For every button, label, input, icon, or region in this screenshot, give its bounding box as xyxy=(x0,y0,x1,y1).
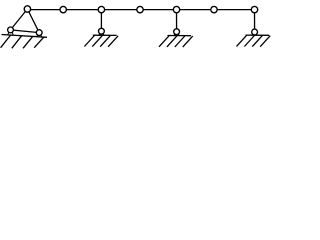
link 6 (top bar, segment 5) xyxy=(177,9,215,11)
hatching (right support) xyxy=(237,35,271,46)
support triangle under leg C xyxy=(99,34,104,36)
hatching (middle support) xyxy=(84,36,118,47)
pivot circle under leg C xyxy=(99,28,105,34)
link 2 (top bar, segment 1) xyxy=(27,9,63,11)
support legs under pivot A xyxy=(8,32,13,35)
support triangle under leg G xyxy=(252,33,257,36)
link 5 (top bar, segment 4) xyxy=(140,9,177,11)
pivot circle under leg G xyxy=(252,29,258,35)
joint C xyxy=(98,6,104,12)
joint F xyxy=(211,6,217,12)
ground (middle support) xyxy=(93,34,117,36)
joint A (apex of ternary link) xyxy=(24,6,30,12)
link 1 (ternary link: triangle sides) xyxy=(11,9,40,33)
ground (left, under ternary link pivots) xyxy=(2,35,48,38)
joint G xyxy=(251,6,257,12)
leg link at joint E down to support xyxy=(176,10,178,32)
hatching (left ground) xyxy=(1,35,45,48)
leg link at joint G down to support xyxy=(254,10,256,32)
joint D xyxy=(137,6,143,12)
ground (support under E) xyxy=(168,35,192,37)
support legs under pivot B xyxy=(37,35,42,37)
pivot circle under leg E xyxy=(174,29,180,35)
link 3 (top bar, segment 2) xyxy=(63,9,101,11)
joint B xyxy=(60,6,66,12)
fixed pivot B xyxy=(36,30,42,36)
link 4 (top bar, segment 3) xyxy=(101,9,140,11)
hatching (support under E) xyxy=(159,36,193,47)
link 7 (top bar, segment 6) xyxy=(214,9,255,11)
support triangle under leg E xyxy=(174,34,179,36)
ground (right support) xyxy=(246,34,270,36)
leg link at joint C down to support xyxy=(100,10,102,32)
fixed pivot A (left) xyxy=(8,27,14,33)
joint E xyxy=(173,6,179,12)
